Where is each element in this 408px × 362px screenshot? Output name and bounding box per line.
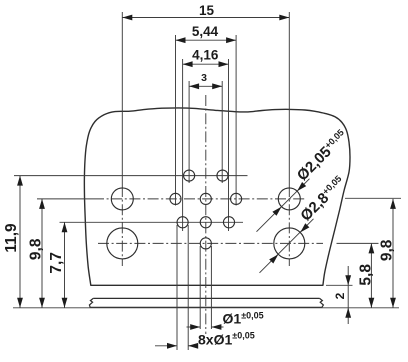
leader diameter 2,05 (257, 179, 310, 232)
5,44 extension lines (175, 35, 177, 206)
svg-text:9,8: 9,8 (379, 239, 396, 261)
centerline row 1 (11,9 extension) (14, 175, 248, 177)
svg-text:15: 15 (199, 3, 215, 18)
centerline row 3 (7,7 extension) (60, 221, 244, 223)
svg-text:7,7: 7,7 (48, 252, 65, 274)
dim 9,8 right (392, 199, 394, 308)
dim 5,8 (370, 243, 372, 307)
centerline row 4 right extension (5,8) (337, 242, 379, 244)
dim 3 (189, 85, 222, 87)
dim 15 (122, 17, 289, 19)
svg-text:8xØ1±0,05: 8xØ1±0,05 (198, 330, 255, 347)
centerline row 2 left extension (9,8) (37, 198, 93, 200)
centerline row 2 right extension (9,8 right) (345, 197, 401, 199)
hole row3 center (200, 217, 211, 228)
svg-text:4,16: 4,16 (192, 48, 219, 63)
hole row3 left (177, 217, 188, 228)
centerline row 4 dash-dot through holes (98, 242, 323, 244)
part body outline (84, 108, 350, 285)
hole row2 right (231, 193, 242, 204)
hole row1 right (217, 170, 228, 181)
dim 4,16 (183, 63, 229, 65)
dim diameter 1 (outside arrows) (187, 326, 201, 328)
dim 2 (outside arrows) (347, 266, 349, 324)
hole row2 center (200, 193, 211, 204)
dim 9,8 left (41, 199, 43, 308)
PCB flange strip bottom edge (90, 306, 322, 308)
svg-text:Ø2,05+0,05: Ø2,05+0,05 (294, 127, 351, 184)
hole row1 left (184, 170, 195, 181)
flange right break (320, 298, 324, 307)
big hole upper right (2,05) (278, 188, 300, 210)
big hole lower right (2,8) (274, 228, 305, 259)
bottom reference baseline (13, 307, 399, 309)
right big-hole column line / 15 extension right (288, 12, 290, 186)
svg-text:5,8: 5,8 (358, 264, 375, 286)
centerline row 2 dash-dot through holes (93, 198, 306, 200)
dim 11,9 (19, 176, 21, 308)
big hole lower left (107, 228, 138, 259)
big hole upper left (111, 188, 133, 210)
4,16 extension lines (182, 59, 184, 231)
vertical center line (205, 95, 207, 334)
dim 5,44 (176, 39, 237, 41)
svg-text:11,9: 11,9 (3, 223, 20, 253)
leader diameter 2,8 (260, 219, 314, 273)
body bottom edge extension for dim 2 (326, 284, 353, 286)
dim 7,7 (64, 222, 66, 307)
8x diameter extension (tangent) lines (176, 225, 178, 350)
diameter 1 extension (tangent) lines (199, 246, 201, 329)
hole row2 left (170, 193, 181, 204)
hole row3 right (223, 217, 234, 228)
svg-text:Ø1±0,05: Ø1±0,05 (223, 310, 264, 326)
left big-hole column line / 15 extension left (121, 12, 123, 186)
dim 8x diameter 1 (outside arrows) (155, 345, 177, 347)
svg-text:2: 2 (333, 292, 347, 299)
svg-text:9,8: 9,8 (28, 238, 45, 260)
hole row4 center (200, 238, 211, 249)
svg-text:3: 3 (201, 72, 207, 84)
3 extension lines (188, 81, 190, 183)
svg-text:5,44: 5,44 (192, 24, 219, 39)
flange left break (89, 298, 93, 307)
PCB flange strip top edge (93, 297, 319, 299)
